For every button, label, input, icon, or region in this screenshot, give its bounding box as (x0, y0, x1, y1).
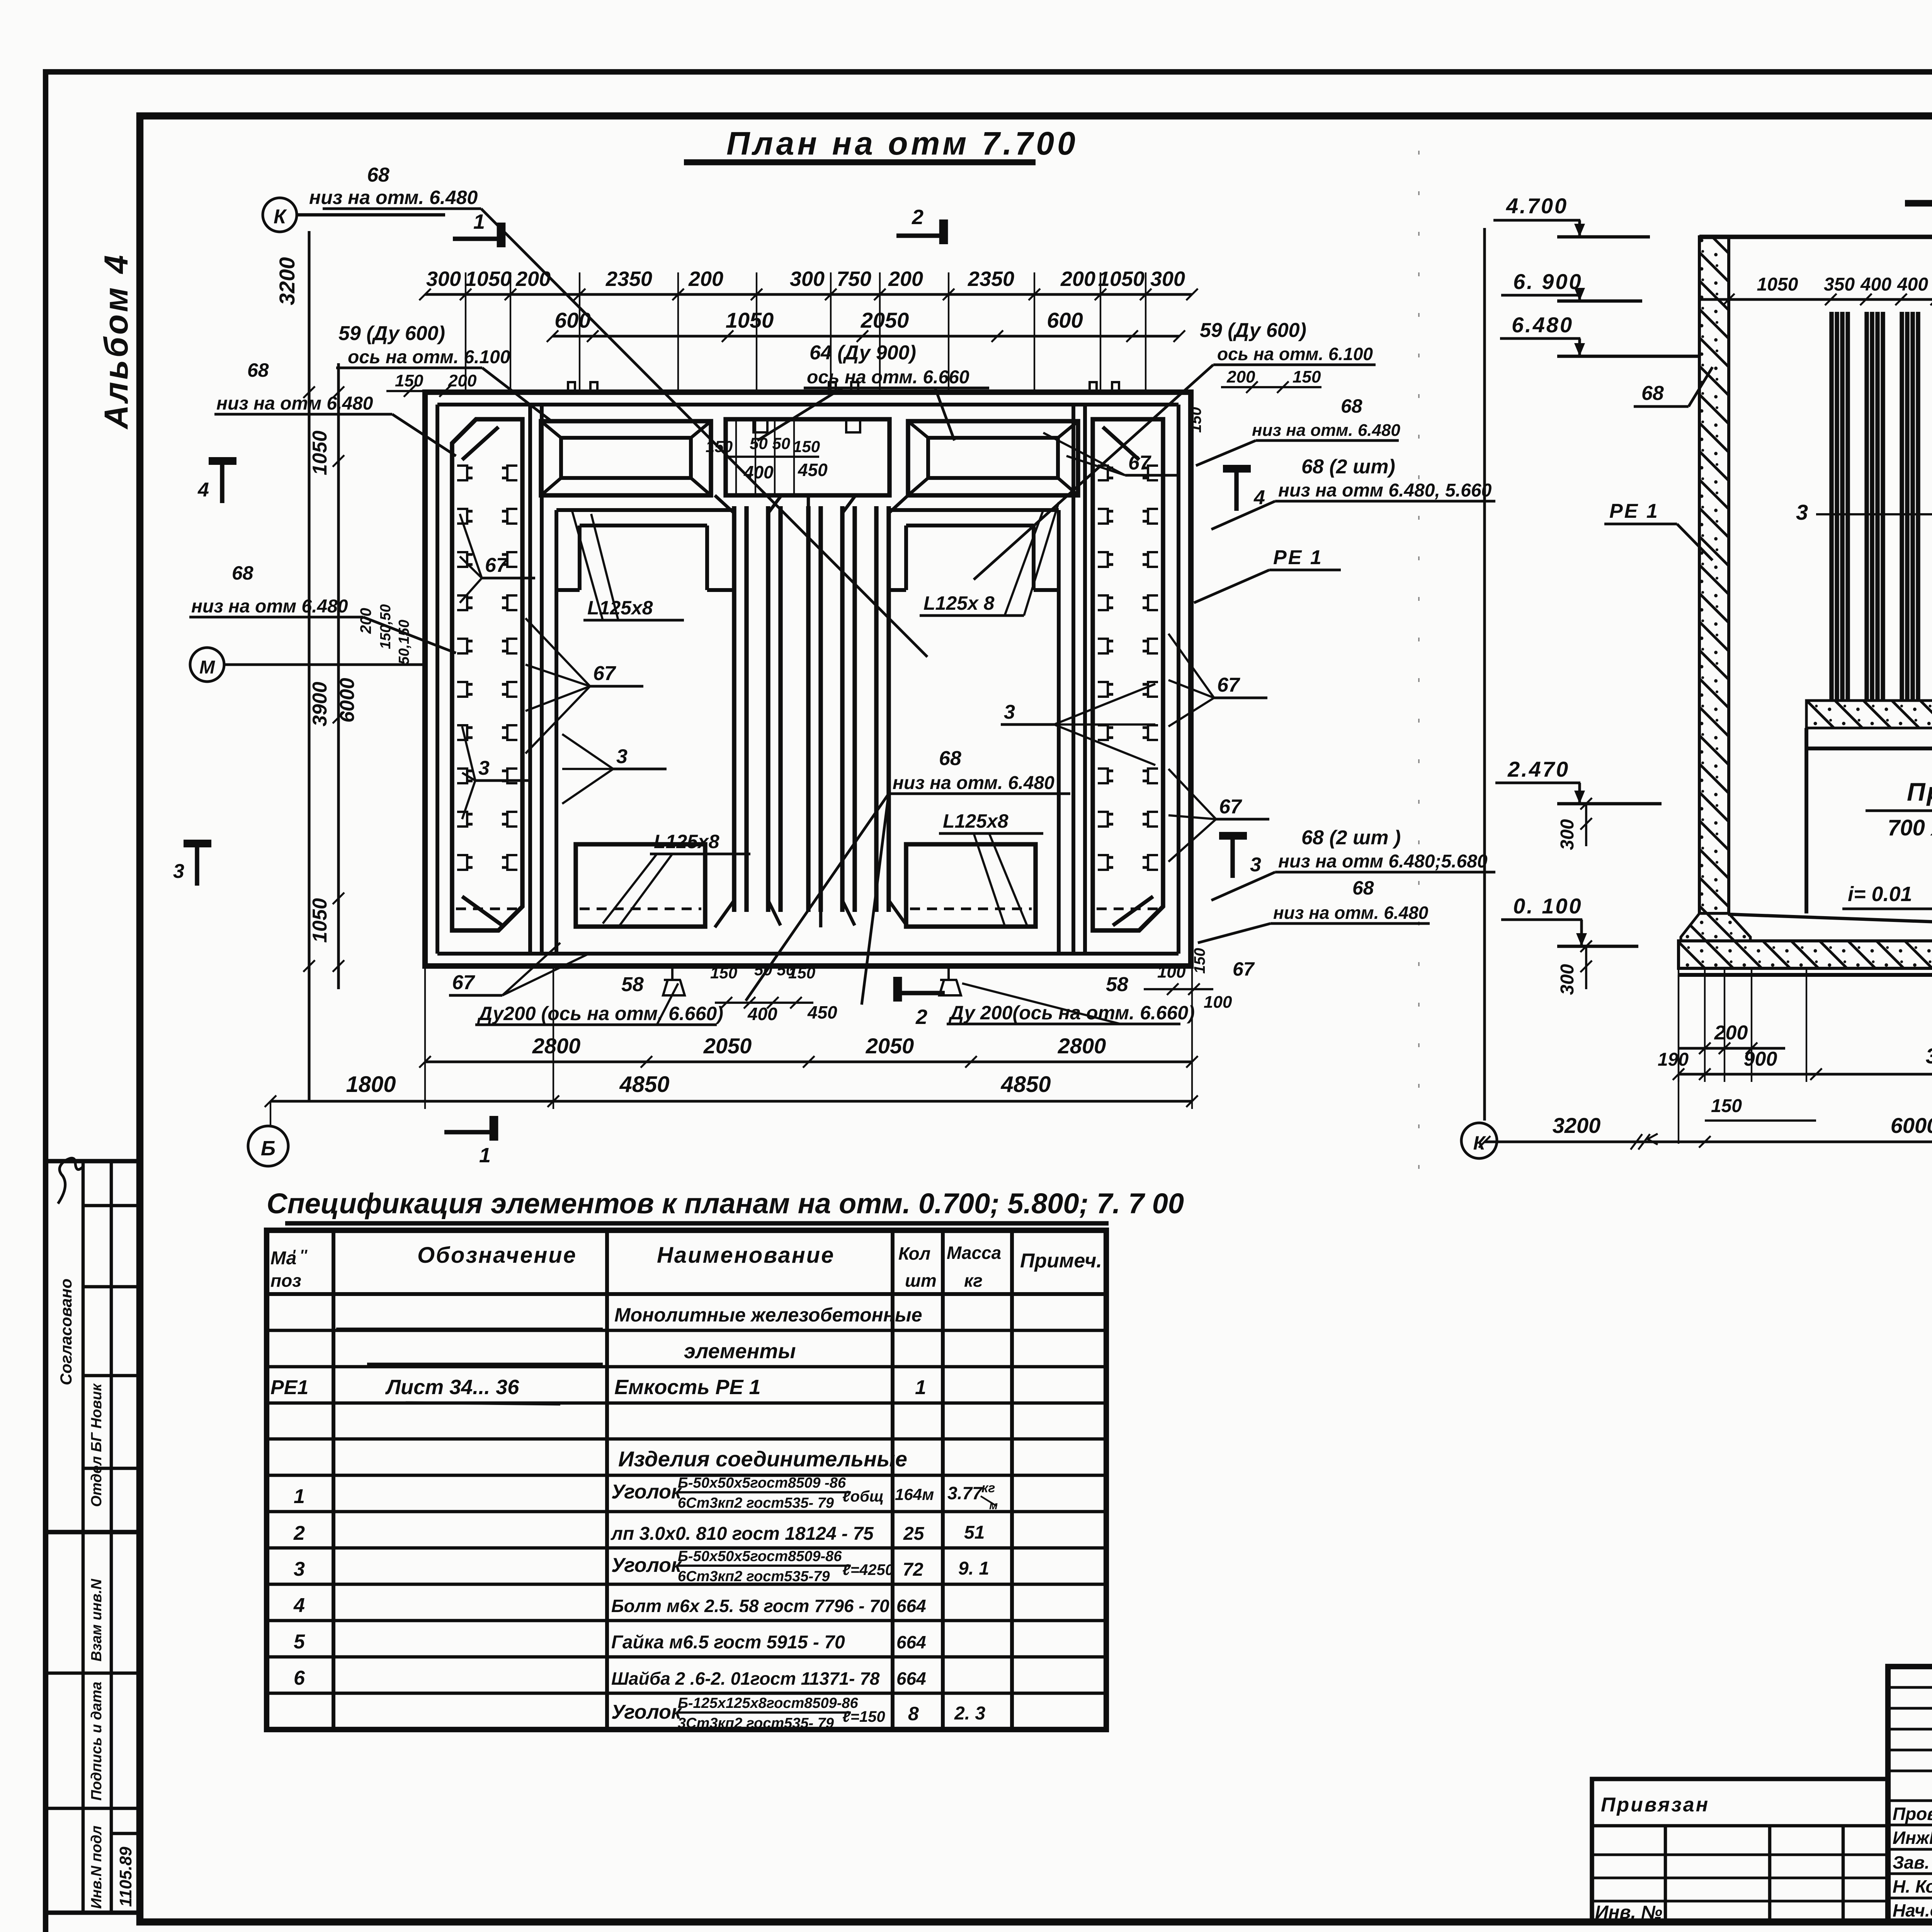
plan top dimension chain line (425, 293, 1192, 296)
svg-text:низ на отм. 6.480: низ на отм. 6.480 (893, 773, 1054, 793)
specification header row texts (267, 1292, 1106, 1296)
svg-text:68: 68 (1641, 382, 1664, 405)
svg-text:100: 100 (1204, 993, 1232, 1012)
section bottom dim row 200s (1679, 1047, 1785, 1049)
svg-text:Н. Контр: Н. Контр (1893, 1876, 1932, 1896)
plan right cell inner outline with notch (889, 508, 1059, 512)
svg-text:450: 450 (798, 460, 828, 480)
svg-text:300: 300 (1150, 267, 1185, 291)
section slab soffit lines (1806, 747, 1932, 750)
svg-text:1050: 1050 (309, 430, 331, 475)
svg-text:200: 200 (888, 267, 923, 291)
svg-text:2.470: 2.470 (1507, 757, 1570, 781)
svg-text:1: 1 (294, 1485, 305, 1508)
dim 300 below 0.100 (1585, 946, 1587, 989)
plan central channel wall lines (732, 506, 736, 912)
section mark 2 bottom (896, 991, 945, 995)
svg-text:РЕ 1: РЕ 1 (1273, 546, 1323, 569)
plan inner wall face lines (437, 403, 1179, 406)
svg-text:3: 3 (1250, 854, 1261, 876)
svg-text:67: 67 (1219, 796, 1242, 818)
svg-text:4: 4 (293, 1594, 305, 1617)
plan right compartment chamfered outline (1093, 419, 1163, 930)
svg-text:Привязан: Привязан (1601, 1794, 1709, 1816)
svg-text:664: 664 (896, 1596, 926, 1616)
svg-text:150: 150 (788, 964, 815, 982)
svg-text:План на отм 7.700: План на отм 7.700 (726, 125, 1078, 162)
svg-text:Альбом 4: Альбом 4 (98, 253, 135, 430)
svg-text:Уголок: Уголок (611, 1554, 682, 1577)
svg-text:1050: 1050 (465, 267, 512, 291)
svg-text:68: 68 (367, 164, 389, 186)
svg-text:ИнжIкат: ИнжIкат (1893, 1828, 1932, 1848)
plan bottom dimension row 1 (425, 1060, 1192, 1063)
svg-text:Б-50х50х5гост8509-86: Б-50х50х5гост8509-86 (678, 1548, 842, 1565)
svg-text:3: 3 (173, 860, 184, 883)
svg-text:67: 67 (485, 554, 508, 577)
svg-text:2350: 2350 (605, 267, 652, 291)
svg-text:100: 100 (1157, 963, 1186, 981)
svg-text:1050: 1050 (309, 898, 331, 943)
title block left attachment table (1592, 1779, 1888, 1922)
svg-text:4: 4 (197, 479, 209, 501)
section plate stripes group (1829, 312, 1833, 701)
svg-text:200: 200 (688, 267, 723, 291)
svg-text:Наименование: Наименование (657, 1243, 835, 1268)
svg-text:664: 664 (896, 1632, 926, 1652)
svg-text:Зав. пр.: Зав. пр. (1893, 1852, 1932, 1872)
svg-text:L125х 8: L125х 8 (923, 592, 995, 614)
section top dimension line (1700, 298, 1932, 301)
svg-text:67: 67 (452, 971, 475, 994)
svg-text:Обозначение: Обозначение (417, 1243, 577, 1268)
svg-text:164м: 164м (895, 1485, 934, 1503)
svg-text:Спецификация элементов к пла: Спецификация элементов к планам на отм. … (267, 1187, 1184, 1219)
svg-text:элементы: элементы (684, 1340, 796, 1363)
svg-text:2050: 2050 (703, 1034, 752, 1058)
svg-text:750: 750 (837, 267, 871, 291)
specification row lines (267, 1329, 1106, 1332)
svg-text:Нач.отд: Нач.отд (1893, 1900, 1932, 1920)
section mark 1 bottom (444, 1130, 493, 1134)
svg-text:0. 100: 0. 100 (1513, 894, 1583, 918)
plan pipe stub symbols top wall (568, 382, 597, 392)
svg-text:низ на отм. 6.480: низ на отм. 6.480 (1273, 903, 1429, 923)
section bottom extension lines (1678, 970, 1679, 1082)
svg-text:низ на отм. 6.480: низ на отм. 6.480 (1252, 421, 1400, 440)
plan outer wall rectangle (425, 392, 1191, 966)
section mark 3 left (195, 842, 199, 886)
svg-text:поз: поз (270, 1270, 301, 1291)
section bottom slab lower line (1679, 973, 1932, 977)
plan bottom dimension row 2 (270, 1100, 1192, 1102)
section mark 3 right (1230, 835, 1235, 878)
specification obsoznachenie strikethrough marks (336, 1328, 603, 1331)
svg-text:400: 400 (1897, 274, 1928, 295)
svg-text:Провер.: Провер. (1893, 1804, 1932, 1824)
svg-text:Изделия соединительные: Изделия соединительные (618, 1447, 907, 1471)
plan partition walls beside compartments (528, 405, 532, 954)
svg-text:Примеч.: Примеч. (1020, 1250, 1102, 1272)
axis K circle top left (263, 198, 297, 232)
svg-text:4.700: 4.700 (1506, 194, 1568, 218)
svg-text:Взам инв.N: Взам инв.N (88, 1578, 105, 1662)
svg-text:300: 300 (1557, 964, 1578, 995)
svg-text:6. 900: 6. 900 (1513, 269, 1583, 294)
svg-text:К: К (274, 206, 287, 228)
fold mark dashed line between views (1418, 151, 1420, 1182)
svg-text:3Ст3кп2 гост535- 79: 3Ст3кп2 гост535- 79 (678, 1715, 834, 1731)
section mark 4 left (220, 460, 224, 503)
svg-text:низ на отм 6.480;5.680: низ на отм 6.480;5.680 (1278, 851, 1488, 872)
plan bottom opening A (576, 844, 705, 927)
svg-text:59 (Ду 600): 59 (Ду 600) (338, 322, 445, 345)
svg-text:300: 300 (1557, 819, 1578, 850)
svg-text:кг: кг (964, 1270, 983, 1291)
svg-text:Емкость РЕ 1: Емкость РЕ 1 (614, 1376, 761, 1399)
svg-text:ℓобщ: ℓобщ (842, 1488, 884, 1505)
svg-text:400: 400 (747, 1004, 777, 1024)
svg-text:Проем: Проем (1907, 777, 1932, 806)
svg-text:Кол: Кол (898, 1243, 930, 1264)
svg-text:Монолитные железобетонные: Монолитные железобетонные (614, 1304, 922, 1326)
section bottom dim row 3200 6000 (1485, 1140, 1932, 1143)
svg-text:67: 67 (1128, 452, 1151, 474)
svg-text:6000: 6000 (336, 678, 359, 723)
svg-text:150: 150 (793, 437, 820, 456)
svg-text:2800: 2800 (1058, 1034, 1106, 1058)
axis B circle bottom left (248, 1126, 288, 1166)
svg-text:9. 1: 9. 1 (958, 1558, 989, 1579)
section mark 4 right (1234, 468, 1238, 511)
svg-text:Болт м6х 2.5. 58 гост 7796 - 7: Болт м6х 2.5. 58 гост 7796 - 70 (611, 1596, 889, 1616)
svg-text:Согласовано: Согласовано (57, 1279, 75, 1385)
section left axis line (1483, 228, 1486, 1121)
svg-text:190: 190 (1658, 1049, 1689, 1070)
svg-text:664: 664 (896, 1668, 926, 1689)
svg-text:3: 3 (1004, 701, 1015, 723)
svg-text:50,150: 50,150 (396, 620, 412, 665)
svg-text:ℓ=150: ℓ=150 (842, 1708, 885, 1725)
svg-text:400: 400 (743, 462, 774, 482)
left margin lower stamp table (46, 1532, 140, 1913)
plan top opening B with bevelled frame (908, 421, 1078, 495)
svg-text:Шайба 2 .6-2. 01гост 11371- 78: Шайба 2 .6-2. 01гост 11371- 78 (611, 1668, 880, 1689)
svg-text:L125х8: L125х8 (943, 810, 1009, 832)
plan left compartment chamfered outline (452, 419, 522, 930)
section mark 2 top (896, 233, 945, 238)
svg-text:низ на отм 6.480, 5.660: низ на отм 6.480, 5.660 (1278, 480, 1492, 501)
svg-text:Б-125х125х8гост8509-86: Б-125х125х8гост8509-86 (678, 1695, 859, 1711)
svg-text:кг: кг (981, 1481, 995, 1495)
svg-text:2: 2 (293, 1522, 305, 1544)
plan top opening A with bevelled frame (541, 421, 711, 495)
axis M circle left (190, 648, 224, 682)
svg-text:1: 1 (915, 1376, 926, 1399)
svg-text:400: 400 (1860, 274, 1891, 295)
section top edge line (1699, 235, 1932, 239)
svg-text:68: 68 (1341, 395, 1362, 417)
section stripes centre line with label 3 (1816, 513, 1932, 515)
svg-text:2: 2 (915, 1005, 927, 1029)
svg-text:1105.89: 1105.89 (116, 1847, 135, 1907)
svg-text:низ на отм 6.480: низ на отм 6.480 (191, 596, 348, 617)
section intermediate slab hatched (1806, 701, 1932, 728)
svg-text:3.77: 3.77 (947, 1483, 983, 1503)
section bottom dim row 190-900-3900-900-150 (1679, 1073, 1932, 1075)
svg-text:58: 58 (621, 973, 644, 996)
svg-text:150: 150 (395, 371, 423, 390)
svg-text:5: 5 (294, 1631, 305, 1653)
section mark 1 top (453, 236, 501, 241)
svg-text:2050: 2050 (861, 308, 909, 332)
svg-text:Ду200 (ось на отм. 6.660): Ду200 (ось на отм. 6.660) (477, 1003, 723, 1024)
svg-text:450: 450 (807, 1002, 837, 1022)
left margin signature squiggle (58, 1158, 84, 1204)
svg-text:2350: 2350 (968, 267, 1014, 291)
svg-text:3: 3 (616, 745, 628, 768)
svg-text:6Ст3кп2 гост535-79: 6Ст3кп2 гост535-79 (678, 1568, 830, 1585)
svg-text:200: 200 (515, 267, 551, 291)
svg-text:350: 350 (1824, 274, 1855, 295)
svg-text:1050: 1050 (1757, 274, 1798, 295)
svg-text:900: 900 (1744, 1048, 1777, 1070)
svg-text:ось на отм. 6.100: ось на отм. 6.100 (348, 347, 510, 367)
svg-text:67: 67 (1233, 958, 1255, 980)
plan compartment inner chamfer lines (462, 427, 498, 460)
plan compartment secondary chamfer lines (452, 419, 476, 443)
svg-text:3200: 3200 (275, 257, 299, 305)
svg-text:3900: 3900 (309, 682, 331, 726)
svg-text:м: м (989, 1499, 998, 1512)
svg-text:600: 600 (1047, 308, 1083, 332)
svg-text:низ на отм. 6.480: низ на отм. 6.480 (309, 187, 478, 208)
svg-text:1050: 1050 (726, 308, 774, 332)
svg-text:Подпись и дата: Подпись и дата (88, 1682, 105, 1801)
svg-text:6: 6 (294, 1667, 305, 1689)
svg-text:150: 150 (1187, 407, 1204, 433)
title block name rows (1888, 1799, 1932, 1802)
plan left dimension 3200 rotated (303, 386, 315, 398)
svg-text:6Ст3кп2 гост535- 79: 6Ст3кп2 гост535- 79 (678, 1495, 834, 1511)
svg-text:150: 150 (706, 437, 733, 456)
svg-text:68: 68 (247, 359, 269, 381)
plan compartment dashed bottom lines (456, 907, 520, 910)
svg-text:68 (2 шт): 68 (2 шт) (1301, 456, 1395, 478)
svg-text:ось на отм. 6.100: ось на отм. 6.100 (1217, 344, 1373, 364)
svg-text:РЕ 1: РЕ 1 (1609, 500, 1659, 522)
plan central top opening (726, 419, 889, 495)
plan pipe flange symbols bottom wall Du200 (663, 966, 685, 995)
svg-text:РЕ1: РЕ1 (270, 1376, 308, 1399)
specification table frame (267, 1230, 1106, 1730)
svg-text:Инв.N подл: Инв.N подл (88, 1826, 105, 1909)
svg-text:2800: 2800 (532, 1034, 581, 1058)
svg-text:i= 0.01: i= 0.01 (1848, 883, 1912, 906)
svg-text:Уголок: Уголок (611, 1701, 682, 1723)
plan left dim line x876 (337, 363, 340, 989)
svg-text:М: М (199, 657, 215, 678)
svg-text:1: 1 (473, 210, 485, 233)
svg-text:Гайка м6.5 гост 5915 - 70: Гайка м6.5 гост 5915 - 70 (611, 1632, 845, 1653)
plan bottom opening B (906, 844, 1036, 927)
svg-text:64 (Ду 900): 64 (Ду 900) (810, 342, 916, 364)
svg-text:3: 3 (1796, 500, 1808, 524)
section bottom slab hatched (1679, 941, 1932, 968)
svg-text:700 х 1870 (h): 700 х 1870 (h) (1888, 815, 1932, 840)
plan left cell inner outline with notch (556, 508, 734, 512)
svg-text:' '': ' '' (292, 1247, 308, 1264)
svg-text:200: 200 (1714, 1022, 1748, 1044)
plan channel top and bottom chamfers (715, 495, 734, 513)
plan second dimension row (553, 335, 1179, 337)
svg-text:67: 67 (593, 662, 616, 685)
svg-text:4850: 4850 (1000, 1072, 1051, 1097)
svg-text:51: 51 (964, 1522, 985, 1543)
svg-text:2050: 2050 (866, 1034, 914, 1058)
svg-text:ℓ=4250: ℓ=4250 (842, 1561, 894, 1578)
axis vertical line K to B (308, 231, 310, 1101)
svg-text:200: 200 (1060, 267, 1095, 291)
svg-text:Б: Б (261, 1137, 276, 1160)
long leader diagonal from 68 label (481, 209, 927, 657)
svg-text:150: 150 (1711, 1096, 1742, 1116)
svg-text:Отдел БГ Новик: Отдел БГ Новик (88, 1383, 105, 1507)
svg-text:3: 3 (294, 1558, 305, 1580)
svg-text:25: 25 (903, 1524, 925, 1544)
dim 300 below 2.470 (1585, 804, 1587, 846)
title block outer frame (1888, 1667, 1932, 1922)
svg-text:4850: 4850 (619, 1072, 669, 1097)
svg-text:59 (Ду 600): 59 (Ду 600) (1200, 319, 1306, 342)
svg-text:150: 150 (710, 964, 737, 982)
svg-text:68: 68 (939, 747, 961, 770)
svg-text:лп 3.0х0. 810 гост 18124 - 75: лп 3.0х0. 810 гост 18124 - 75 (611, 1524, 874, 1544)
svg-text:Лист 34... 36: Лист 34... 36 (385, 1376, 519, 1399)
svg-text:Масса: Масса (947, 1243, 1001, 1263)
svg-text:67: 67 (1217, 674, 1240, 696)
section left wall hatched (1699, 237, 1729, 913)
left margin upper stamp table (46, 1161, 140, 1532)
svg-text:58: 58 (1106, 973, 1128, 996)
section bottom dim row 150 190 (1705, 1119, 1816, 1122)
svg-text:68: 68 (1352, 877, 1374, 899)
svg-text:Уголок: Уголок (611, 1481, 682, 1503)
svg-text:300: 300 (426, 267, 461, 291)
svg-text:4: 4 (1253, 486, 1265, 509)
svg-text:ось на отм. 6.660: ось на отм. 6.660 (807, 367, 969, 388)
svg-text:300: 300 (790, 267, 825, 291)
plan left compartment anchor brackets (457, 466, 467, 480)
svg-text:L125х8: L125х8 (654, 831, 719, 852)
svg-text:1: 1 (479, 1144, 491, 1167)
svg-text:150: 150 (1191, 948, 1208, 974)
svg-text:шт: шт (905, 1270, 937, 1291)
section axis K circle (1461, 1123, 1497, 1158)
svg-text:72: 72 (903, 1560, 923, 1580)
svg-text:200: 200 (448, 371, 477, 390)
svg-text:6.480: 6.480 (1512, 313, 1573, 337)
section left wall footing (1681, 913, 1750, 941)
svg-text:Ду 200(ось на отм. 6.660): Ду 200(ось на отм. 6.660) (948, 1002, 1195, 1024)
svg-text:Б-50х50х5гост8509 -86: Б-50х50х5гост8509 -86 (678, 1475, 846, 1491)
svg-text:3900: 3900 (1926, 1044, 1932, 1068)
svg-text:Инв. №: Инв. № (1595, 1902, 1662, 1923)
svg-text:низ на отм 6.480: низ на отм 6.480 (216, 393, 373, 414)
svg-text:150: 150 (1293, 367, 1321, 386)
svg-text:3200: 3200 (1553, 1113, 1601, 1138)
svg-text:200: 200 (1226, 367, 1255, 386)
svg-text:1800: 1800 (346, 1072, 396, 1097)
svg-text:8: 8 (908, 1703, 919, 1725)
svg-text:6000: 6000 (1891, 1113, 1932, 1138)
svg-text:3: 3 (478, 757, 490, 779)
svg-text:68: 68 (232, 562, 253, 584)
svg-text:2. 3: 2. 3 (954, 1703, 985, 1724)
svg-text:1050: 1050 (1098, 267, 1145, 291)
title block upper small rows (1888, 1686, 1932, 1689)
svg-text:2: 2 (912, 206, 923, 229)
svg-text:68 (2 шт ): 68 (2 шт ) (1301, 827, 1401, 849)
plan right compartment anchor brackets (1098, 466, 1108, 480)
